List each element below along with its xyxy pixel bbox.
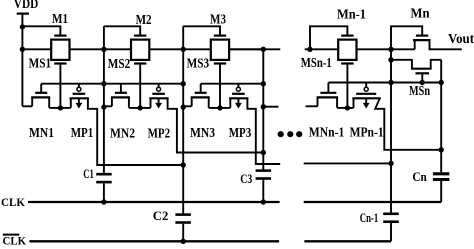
transistor M3 gate bar (214, 34, 226, 36)
wire C1 bottom lead (103, 183, 105, 202)
wire MSn drain leg (431, 60, 442, 69)
wire MN3 source to node (183, 105, 192, 107)
label MN3 (190, 126, 215, 141)
wire main node segment into M1 (22, 48, 51, 50)
label MN1 (29, 126, 54, 141)
node MSn source dot (388, 57, 393, 62)
svg-text:Cn-1: Cn-1 (360, 210, 378, 225)
wire Mn drain leg to Vout (430, 40, 462, 49)
wire MS1 gate lead (59, 64, 61, 108)
capacitor C3 (256, 171, 272, 179)
wire main node 3 stub (229, 48, 280, 50)
wire Cn-1 bottom lead (390, 223, 392, 241)
node gate-drive dot at node1 (101, 81, 106, 86)
wire Mn source leg (414, 40, 416, 49)
wire node3 vertical (262, 49, 264, 169)
label CLK (1, 197, 25, 209)
label Cn-1 (360, 210, 378, 225)
wire MP2 drain to node3 (168, 98, 264, 152)
wire MP3 drain stub (247, 98, 280, 164)
svg-text:MPn-1: MPn-1 (350, 126, 384, 141)
wire gate of M3 (diode connection) (183, 26, 220, 35)
node MS3 gate junction dot (217, 105, 222, 110)
transistor M1 gate bar (54, 34, 66, 36)
node MS1 gate junction dot (58, 105, 63, 110)
label M1 (52, 12, 68, 27)
wire C3 bottom lead (262, 180, 264, 202)
wire node n vertical (440, 60, 442, 172)
node MP1 drain dot at node2 (181, 162, 186, 167)
svg-text:Cn: Cn (412, 169, 427, 184)
svg-text:Vout: Vout (448, 32, 474, 47)
label MP3 (229, 126, 252, 141)
ellipsis dots (278, 131, 303, 137)
transistor pair M2/MS2 box (131, 40, 149, 60)
node main dot node1 (101, 47, 106, 52)
label C3 (240, 171, 252, 186)
transistor MP1 (70, 84, 89, 109)
capacitor C1 (96, 174, 112, 182)
transistor Mn-1 gate bar (341, 34, 353, 36)
transistor MSn channel (411, 68, 432, 70)
node main dot node n-1 (388, 47, 393, 52)
node Mn-1 gate dot (307, 47, 312, 52)
wire gate of M2 (diode connection) (104, 26, 140, 35)
svg-text:MS3: MS3 (187, 57, 210, 72)
wire gate of M1 (diode connection) (22, 26, 60, 35)
svg-text:VDD: VDD (14, 0, 39, 12)
wire MPn-1 drain to node n (375, 98, 441, 150)
transistor MP2 (149, 84, 168, 109)
svg-text:C2: C2 (153, 208, 169, 223)
svg-text:M3: M3 (210, 13, 226, 28)
label Mn (411, 6, 430, 21)
transistor MS1 gate bar (54, 62, 66, 64)
wire MP(n-2) drain stub to node n-1 (304, 162, 391, 164)
capacitor Cn (433, 174, 450, 180)
wire MNn-1 source stub (306, 105, 318, 107)
node C2-CLKbar dot (181, 239, 186, 244)
label MPn-1 (350, 126, 384, 141)
node MP(n-2) drain dot (388, 161, 393, 166)
node C3-CLK dot (261, 199, 266, 204)
wire main node segment out of M1 (70, 48, 106, 50)
wire main stub before Mn-1 (305, 48, 339, 50)
label MS3 (187, 57, 210, 72)
node VDD junction dot main (20, 47, 25, 52)
node MPn-1 drain dot at node n (439, 147, 444, 152)
wire main node segment into M2 (104, 48, 131, 50)
transistor MSn-1 gate bar (341, 62, 353, 64)
node VDD junction dot top (20, 24, 25, 29)
svg-text:MN3: MN3 (190, 126, 215, 141)
wire gate of Mn (diode connection) (391, 26, 422, 49)
wire gate-drive bus stages 1-2 (41, 83, 183, 85)
transistor MN3 (191, 84, 210, 108)
capacitor Cn-1 (383, 214, 399, 222)
transistor Mn gate bar (416, 34, 428, 36)
transistor Mn channel (413, 39, 431, 41)
transistor MSn gate bar (416, 72, 430, 74)
wire MN4 source stub (263, 106, 278, 108)
transistor M2 gate bar (134, 34, 146, 36)
svg-text:CLK: CLK (1, 197, 25, 209)
label M3 (210, 13, 226, 28)
wire node n-1 vertical (390, 49, 392, 213)
svg-text:MSn: MSn (409, 84, 430, 99)
wire CLKbar rail left segment (29, 240, 279, 242)
wire main node segment out of M3 (229, 48, 265, 50)
wire Cn bottom lead (440, 180, 442, 203)
wire node2 vertical (182, 26, 184, 213)
wire CLK rail right segment (304, 201, 442, 203)
transistor MN2 (111, 84, 130, 108)
node main dot node2 (181, 47, 186, 52)
wire MN2 source to node (104, 105, 112, 107)
node MS2 gate junction dot (138, 105, 143, 110)
label MS1 (29, 57, 51, 72)
svg-text:CLK: CLK (3, 236, 27, 248)
node gate-drive dot at node n-1 (388, 80, 393, 85)
node C1-CLK dot (101, 199, 106, 204)
label MP1 (71, 126, 94, 141)
label C2 (153, 208, 169, 223)
svg-text:MN1: MN1 (29, 126, 54, 141)
wire main Mn-1 to node n-1 and Mn (357, 48, 415, 50)
power VDD bar (17, 13, 29, 15)
svg-text:MS2: MS2 (108, 57, 131, 72)
wire MS3 gate lead (219, 64, 221, 108)
label MP2 (148, 126, 171, 141)
svg-text:MS1: MS1 (29, 57, 51, 72)
wire gate-drive bus stage 3 (201, 83, 264, 85)
transistor pair Mn-1/MSn-1 box (338, 40, 356, 60)
label Vout (448, 32, 474, 47)
wire MN1 source to node (22, 105, 32, 107)
svg-text:MP3: MP3 (229, 126, 252, 141)
label MSn (409, 84, 430, 99)
node main dot node3 (261, 47, 266, 52)
label Mn-1 (337, 8, 366, 23)
wire MN3-MP3 common node (209, 107, 231, 109)
node MSn-1 gate junction dot (345, 105, 350, 110)
transistor MNn-1 (317, 83, 339, 108)
node gate-drive end dot at node n (439, 80, 444, 85)
svg-text:MN2: MN2 (110, 126, 135, 141)
node MN3 source dot (181, 104, 186, 109)
power VDD label (14, 0, 39, 12)
node gate-drive dot at node3 (261, 81, 266, 86)
wire VDD vertical (21, 14, 23, 107)
label MN2 (110, 126, 135, 141)
transistor MS2 gate bar (134, 62, 146, 64)
wire MS2 gate lead (139, 64, 141, 108)
svg-text:MP1: MP1 (71, 126, 94, 141)
svg-text:M1: M1 (52, 12, 68, 27)
wire gate of Mn-1 (diode connection) (310, 26, 347, 49)
node MN2 source dot (101, 104, 106, 109)
wire MNn-1-MPn-1 common node (337, 107, 353, 109)
label C1 (83, 166, 94, 181)
label MS2 (108, 57, 131, 72)
wire CLKbar rail right segment (304, 240, 391, 242)
svg-text:MSn-1: MSn-1 (301, 56, 332, 71)
svg-text:C1: C1 (83, 166, 94, 181)
wire MSn gate lead (421, 73, 423, 82)
wire main node segment into M3 (183, 48, 211, 50)
transistor MS3 gate bar (214, 62, 226, 64)
wire MSn source from node n-1 (391, 60, 412, 69)
svg-text:Mn-1: Mn-1 (337, 8, 366, 23)
node MSn gate dot (420, 80, 425, 85)
label CLKbar (3, 235, 27, 248)
label MNn-1 (309, 126, 345, 141)
wire C2 bottom lead (182, 224, 184, 242)
transistor pair M3/MS3 box (211, 40, 229, 60)
label Cn (412, 169, 427, 184)
svg-text:MNn-1: MNn-1 (309, 126, 345, 141)
wire gate-drive bus last stage (328, 82, 441, 84)
wire node1 vertical (103, 26, 105, 173)
wire MN1-MP1 common node (49, 107, 71, 109)
svg-text:M2: M2 (136, 13, 152, 28)
transistor MPn-1 (352, 83, 381, 109)
capacitor C2 (175, 215, 191, 223)
node MN4 source stub dot (261, 104, 266, 109)
svg-text:MP2: MP2 (148, 126, 171, 141)
transistor MP3 (229, 84, 248, 109)
wire CLK rail left segment (28, 201, 280, 203)
wire MN2-MP2 common node (129, 107, 151, 109)
label M2 (136, 13, 152, 28)
svg-text:Mn: Mn (411, 6, 430, 21)
node gate-drive dot at node2 (181, 81, 186, 86)
transistor pair M1/MS1 box (51, 40, 69, 60)
wire MP1 drain to node2 (88, 98, 183, 165)
node MP2 drain dot at node3 (261, 150, 266, 155)
svg-text:C3: C3 (240, 171, 252, 186)
wire main node segment out of M2 (149, 48, 185, 50)
label MSn-1 (301, 56, 332, 71)
wire MSn-1 gate lead (346, 64, 348, 108)
transistor MN1 (31, 84, 50, 108)
